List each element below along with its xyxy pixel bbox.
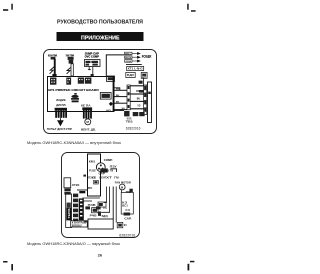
box electric box E1 — [88, 154, 101, 196]
svg-text:ПЗУ: ПЗУ — [110, 165, 118, 168]
svg-text:ХТ: ХТ — [106, 178, 113, 180]
svg-text:ВУ: ВУ — [88, 188, 93, 190]
svg-text:BU: BU — [137, 98, 141, 100]
svg-text:ГМ: ГМ — [114, 177, 119, 179]
diagram 2 border — [62, 153, 140, 238]
labels under box — [88, 177, 107, 179]
tag left of box AP — [83, 175, 86, 177]
box K1 — [141, 72, 147, 78]
cap box C1 — [129, 189, 132, 192]
svg-text:BU N: BU N — [125, 57, 131, 59]
crop mark top-left — [3, 4, 13, 11]
box U1 — [98, 202, 106, 207]
svg-text:YEGN: YEGN — [125, 61, 131, 63]
sensor RT1 lead — [50, 59, 57, 77]
text TB1 labels — [126, 118, 134, 124]
connector blob on wire — [79, 191, 85, 193]
terminal rows L/N/G — [125, 52, 132, 63]
connector CN2 — [66, 78, 71, 85]
wire OVC L — [110, 169, 116, 172]
connector CN3 — [78, 78, 84, 84]
boxes under reactor — [64, 188, 70, 194]
svg-text:FUSE: FUSE — [89, 170, 96, 172]
box mid — [92, 208, 98, 213]
svg-text:САР: САР — [99, 173, 106, 176]
terminal board XT1 label box — [127, 66, 144, 70]
box heater — [88, 219, 113, 229]
svg-text:КМ1: КМ1 — [89, 161, 97, 163]
box 4V — [117, 222, 127, 227]
svg-text:ВД(1): ВД(1) — [102, 215, 109, 218]
svg-text:ПУСК: ПУСК — [88, 177, 96, 179]
pcb right edge thick — [112, 76, 114, 111]
connector display comb — [55, 108, 67, 118]
terminal strip XT (outdoor) — [66, 194, 72, 228]
wires comb to pcb — [82, 198, 100, 201]
svg-text:ПДУ: ПДУ — [127, 74, 135, 77]
connector strip XS — [127, 85, 130, 110]
label wire colors — [106, 171, 119, 180]
wires strip to terminal — [130, 86, 144, 109]
box AP2 — [126, 72, 135, 77]
svg-text:XT1 L-N-G: XT1 L-N-G — [128, 68, 143, 71]
tag YEGN — [139, 90, 144, 93]
label JUMP CAP — [85, 52, 99, 59]
svg-text:ПУЛЬТ ДИСТ.УПР.: ПУЛЬТ ДИСТ.УПР. — [47, 127, 73, 131]
wire K1 down — [142, 78, 144, 86]
svg-text:BN: BN — [136, 91, 140, 93]
svg-text:YG: YG — [137, 106, 141, 108]
connector fan comb — [82, 107, 92, 118]
text inside box — [88, 161, 97, 190]
tag BK — [139, 81, 143, 84]
box swing motor — [100, 93, 111, 100]
svg-text:КЕ ПА: КЕ ПА — [81, 104, 91, 108]
compressor M2 — [96, 163, 105, 172]
svg-text:К ВНУТР.(N): К ВНУТР.(N) — [72, 223, 86, 225]
connector RT2 plug — [68, 57, 74, 60]
svg-text:AP1 PRINTED CIRCUIT BOARD: AP1 PRINTED CIRCUIT BOARD — [48, 88, 100, 92]
svg-text:M: M — [121, 185, 124, 189]
wire power feed — [106, 55, 124, 76]
connector comb strip — [79, 198, 84, 220]
svg-text:ВС1: ВС1 — [122, 206, 128, 208]
sensor RT2 lead — [67, 60, 74, 76]
connector RT1 plug — [51, 57, 56, 60]
diamond node — [109, 102, 113, 106]
wires pcb to connector strip — [114, 90, 127, 109]
svg-text:62822016: 62822016 — [126, 126, 141, 130]
svg-text:С: С — [124, 224, 128, 227]
svg-text:У1: У1 — [103, 207, 107, 210]
svg-text:РЧВ: РЧВ — [90, 215, 97, 218]
wire labels 2 — [136, 91, 140, 108]
svg-text:62822016: 62822016 — [119, 234, 135, 238]
tag left of heater box — [84, 220, 87, 222]
wire labels — [116, 89, 125, 110]
label TUBE TEMP SENSOR — [66, 53, 75, 57]
svg-text:ВУ ПК: ВУ ПК — [106, 171, 114, 173]
connector CN5 power — [107, 76, 115, 82]
svg-text:BN L: BN L — [125, 53, 132, 55]
svg-text:ИНДИК.: ИНДИК. — [56, 98, 66, 102]
svg-text:КЗ: КЗ — [122, 203, 128, 205]
blob VD — [98, 212, 101, 216]
svg-text:ДИСПЛ.: ДИСПЛ. — [56, 103, 66, 107]
crop mark bottom-right — [188, 261, 195, 271]
label ROOM TEMP SENSOR — [48, 53, 57, 57]
arrows to POWER — [132, 53, 140, 62]
wire under terminals — [126, 64, 142, 66]
crop mark top-right — [187, 4, 195, 12]
svg-text:COMP.: COMP. — [104, 158, 113, 162]
wire to TB1 — [114, 110, 124, 112]
svg-text:Модель GWH18RC-K3NNA5A/O — нар: Модель GWH18RC-K3NNA5A/O — наружный блок — [27, 241, 120, 246]
svg-text:БЛОКУ: БЛОКУ — [72, 225, 83, 227]
buzzer HA — [71, 93, 79, 102]
jumper block J1 — [85, 60, 101, 67]
svg-text:ХТ2К: ХТ2К — [72, 183, 80, 187]
wire column boxes — [73, 194, 78, 223]
svg-text:26: 26 — [98, 252, 103, 257]
relay box KM — [121, 192, 133, 215]
PCB board AP1 — [48, 77, 115, 112]
diagram 1 border — [44, 50, 157, 134]
svg-text:ВЕНТ. ДВ.: ВЕНТ. ДВ. — [81, 127, 96, 131]
svg-text:M: M — [86, 120, 89, 124]
svg-text:ТВ1: ТВ1 — [126, 121, 134, 124]
svg-text:ROOM TEMP.: ROOM TEMP. — [48, 53, 57, 57]
svg-text:BK: BK — [116, 102, 120, 104]
svg-text:BU: BU — [116, 95, 120, 97]
connector CN1 — [50, 78, 56, 85]
box to indoor unit label — [71, 221, 88, 228]
svg-text:РУКОВОДСТВО ПОЛЬЗОВАТЕЛЯ: РУКОВОДСТВО ПОЛЬЗОВАТЕЛЯ — [57, 20, 143, 26]
wire jumper to PCB — [88, 67, 94, 77]
reactor L — [64, 178, 71, 188]
label DISPLAY — [56, 98, 66, 107]
wire display arrow — [58, 118, 63, 126]
fan motor M1 — [85, 119, 91, 125]
appendix title bar — [57, 32, 144, 41]
connector CN4 — [85, 78, 92, 84]
svg-text:СЗ: СЗ — [125, 210, 130, 212]
wire pcb top to strip — [114, 88, 120, 91]
terminal block XT — [144, 85, 147, 114]
svg-text:ПРИЛОЖЕНИЕ: ПРИЛОЖЕНИЕ — [81, 35, 120, 41]
svg-text:АВ: АВ — [106, 109, 111, 112]
fan motor M3 — [119, 184, 125, 190]
svg-text:ТЕРМ.: ТЕРМ. — [68, 207, 71, 218]
box XT inside — [94, 180, 99, 184]
wire bundle down — [101, 187, 121, 223]
wire reactor to board — [77, 189, 87, 191]
duct box to outdoor — [148, 82, 152, 123]
dark blobs bottom middle — [85, 206, 100, 209]
svg-text:OVC COMP: OVC COMP — [85, 54, 99, 58]
svg-text:Модель GWH18RC-K3NNA5A/I — вну: Модель GWH18RC-K3NNA5A/I — внутренний бл… — [27, 140, 121, 145]
svg-text:TUBE TEMP.: TUBE TEMP. — [66, 53, 75, 57]
svg-text:ДВ: ДВ — [142, 76, 147, 79]
svg-text:САР.: САР. — [124, 217, 132, 220]
block TB1 — [124, 111, 144, 116]
svg-text:BN: BN — [116, 89, 120, 91]
dark blob under comp — [100, 169, 108, 173]
crop mark bottom-left — [3, 261, 13, 270]
svg-text:POWER: POWER — [142, 54, 152, 59]
